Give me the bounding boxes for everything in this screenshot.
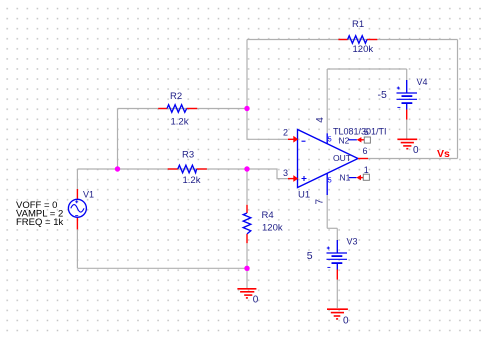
svg-text:0: 0 bbox=[413, 145, 419, 156]
wire V1 top bbox=[76, 169, 78, 189]
junction at R2 right bbox=[244, 106, 249, 111]
pin 7 stub bbox=[326, 173, 328, 195]
wire V4 top horizontal bbox=[327, 68, 407, 70]
svg-text:1: 1 bbox=[364, 165, 369, 175]
wire R3 row bbox=[77, 168, 247, 170]
svg-text:N2: N2 bbox=[339, 136, 350, 146]
svg-text:6: 6 bbox=[363, 146, 368, 156]
svg-text:5: 5 bbox=[328, 175, 332, 184]
wire bottom row bbox=[77, 267, 247, 269]
svg-text:OUT: OUT bbox=[333, 153, 351, 163]
svg-text:4: 4 bbox=[315, 117, 326, 123]
resistor R2 bbox=[158, 91, 197, 128]
minus input mark bbox=[302, 140, 306, 142]
junction at R3 right bbox=[244, 166, 249, 171]
junction at bottom bbox=[244, 266, 249, 271]
wire pin7 to V3 horizontal bbox=[327, 227, 337, 229]
svg-text:3: 3 bbox=[283, 168, 288, 178]
N2 red arrow bbox=[357, 137, 365, 142]
svg-text:FREQ = 1k: FREQ = 1k bbox=[16, 217, 63, 228]
resistor R1 bbox=[338, 19, 377, 55]
wire to pin3 step bbox=[247, 169, 288, 179]
wire pin4 supply vertical bbox=[326, 69, 328, 133]
wire R4 upper bbox=[246, 169, 248, 205]
wire R4 to ground bbox=[246, 268, 248, 288]
wire top feedback horizontal bbox=[247, 39, 458, 41]
V1 parameter labels bbox=[16, 200, 63, 228]
svg-text:0: 0 bbox=[343, 316, 349, 327]
svg-text:R3: R3 bbox=[182, 150, 194, 161]
wire pin7 vertical bbox=[326, 195, 328, 228]
wire R2 row bbox=[118, 108, 248, 110]
svg-text:V1: V1 bbox=[83, 189, 94, 199]
ground under R4 bbox=[237, 289, 256, 298]
wire R2 left drop bbox=[117, 109, 119, 170]
op-amp triangle body bbox=[298, 130, 359, 188]
N1 unconnected square bbox=[363, 174, 369, 180]
wire V3 top stub bbox=[336, 228, 338, 240]
N2 unconnected square bbox=[364, 137, 370, 143]
pin 2 red arrow bbox=[288, 136, 298, 143]
svg-text:R1: R1 bbox=[352, 19, 364, 30]
svg-text:5: 5 bbox=[307, 250, 313, 262]
svg-text:U1: U1 bbox=[298, 190, 310, 201]
voltage source V1 bbox=[68, 189, 94, 229]
svg-text:R4: R4 bbox=[262, 210, 274, 221]
svg-text:120k: 120k bbox=[262, 223, 283, 234]
pin 3 red arrow bbox=[288, 175, 298, 182]
pin 4 stub bbox=[326, 133, 328, 144]
svg-text:V4: V4 bbox=[417, 77, 428, 87]
wire V4 top stub bbox=[406, 69, 408, 80]
ground under V3 bbox=[327, 309, 348, 319]
svg-text:1.2k: 1.2k bbox=[171, 117, 189, 128]
battery V4 bbox=[378, 77, 428, 120]
wire R4 lower bbox=[246, 243, 248, 268]
svg-text:TL081/301/TI: TL081/301/TI bbox=[333, 127, 387, 137]
svg-text:N1: N1 bbox=[340, 173, 351, 183]
svg-text:-5: -5 bbox=[378, 89, 387, 101]
svg-text:2: 2 bbox=[283, 128, 288, 138]
svg-text:Vs: Vs bbox=[437, 148, 450, 160]
wire V1 bottom bbox=[76, 229, 78, 268]
N1 pin line bbox=[349, 177, 357, 179]
resistor R4 bbox=[243, 205, 283, 243]
wire output horizontal bbox=[368, 158, 458, 160]
op-amp U1 bbox=[283, 117, 387, 205]
N2 pin line bbox=[349, 139, 357, 141]
svg-text:1.2k: 1.2k bbox=[183, 175, 201, 186]
output pin 6 red stub bbox=[358, 158, 368, 160]
svg-text:V3: V3 bbox=[347, 237, 358, 247]
wire feedback left vertical bbox=[246, 40, 248, 109]
svg-text:0: 0 bbox=[253, 294, 259, 305]
battery V3 bbox=[307, 237, 358, 280]
N1 red arrow bbox=[356, 175, 363, 180]
resistor R3 bbox=[168, 150, 207, 187]
plus input mark bbox=[302, 176, 307, 181]
wire V4 to ground bbox=[406, 120, 408, 139]
svg-text:R2: R2 bbox=[170, 91, 182, 102]
svg-text:120k: 120k bbox=[353, 44, 374, 55]
junction at R3 left bbox=[115, 166, 120, 171]
wire V3 to ground bbox=[336, 280, 338, 308]
svg-text:7: 7 bbox=[314, 199, 325, 205]
wire to pin2 drop bbox=[247, 109, 288, 140]
wire feedback right vertical bbox=[457, 40, 459, 159]
svg-text:5: 5 bbox=[328, 135, 332, 144]
ground under V4 bbox=[397, 139, 417, 148]
